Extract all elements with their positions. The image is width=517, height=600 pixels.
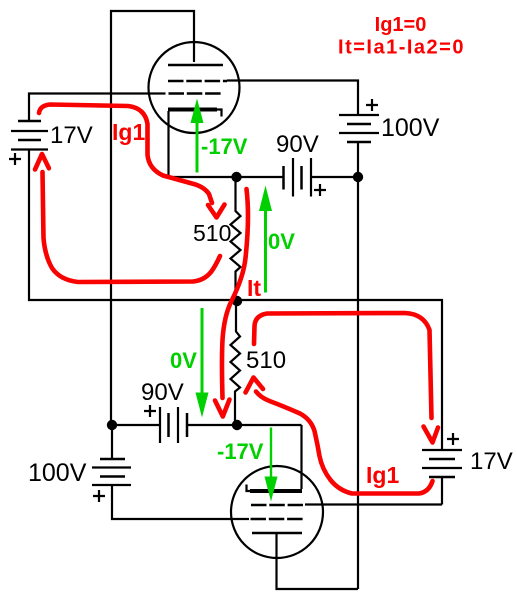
svg-text:0V: 0V: [170, 348, 197, 373]
wire top box (plate of V1 to left rail): [111, 11, 194, 425]
wire mid rail (17V left to 17V right): [29, 150, 442, 450]
wire V2 g2 to 17V right battery: [305, 477, 442, 505]
battery B6 17V right plates: [422, 450, 462, 477]
resistor R2 510: [231, 301, 241, 425]
tube V2 control grid g1: [251, 518, 304, 521]
svg-text:Ig1: Ig1: [366, 462, 399, 488]
svg-text:17V: 17V: [470, 448, 513, 475]
wire node D to V2 cathode: [237, 425, 302, 489]
svg-text:0V: 0V: [268, 229, 295, 254]
svg-text:-17V: -17V: [217, 439, 264, 464]
svg-text:510: 510: [193, 220, 231, 246]
wire B4 to node D: [187, 424, 235, 426]
svg-text:90V: 90V: [141, 379, 184, 406]
battery B4 plus: [144, 405, 156, 417]
wire right rail (node B down): [357, 177, 359, 589]
tube V1 control grid g1: [169, 92, 222, 95]
battery B3 17V left plates: [11, 121, 48, 150]
svg-text:100V: 100V: [28, 459, 87, 487]
tube V1 plate bar: [168, 64, 223, 67]
arrowhead Ig1 top at R1: [208, 205, 225, 218]
resistor R1 510: [231, 177, 241, 301]
tube V2 cathode bar: [250, 489, 302, 493]
node D: [232, 420, 242, 430]
svg-text:Ig1=0: Ig1=0: [375, 14, 427, 36]
tube V1 cathode hook: [217, 110, 222, 117]
current path Ig1 top (battery to R1): [39, 105, 212, 204]
node A: [231, 172, 241, 182]
svg-text:It=Ia1-Ia2=0: It=Ia1-Ia2=0: [338, 37, 465, 59]
tube V1 envelope: [149, 42, 240, 133]
arrowhead Ig1 bottom at R2: [246, 378, 264, 393]
battery B1 100V plates: [339, 115, 379, 142]
tube V2 screen grid g2: [251, 504, 303, 507]
voltage arrow 0V bottom: [196, 308, 209, 418]
battery B3 plus: [9, 153, 21, 165]
svg-text:17V: 17V: [50, 122, 93, 149]
wire node E to 90V battery: [111, 424, 160, 426]
current path Ig1 top return (R1 to battery): [43, 172, 221, 282]
voltage arrow 0V top: [259, 186, 272, 293]
svg-text:Ig1: Ig1: [112, 119, 145, 145]
node C: [232, 296, 242, 306]
svg-text:90V: 90V: [276, 131, 319, 158]
battery B4 90V bottom plates: [160, 407, 187, 443]
wire V2 plate to right rail: [277, 533, 359, 589]
wire node E to B5: [111, 425, 113, 459]
svg-text:-17V: -17V: [201, 134, 248, 159]
battery B1 plus: [366, 99, 378, 111]
node B: [353, 172, 363, 182]
battery B5 plus: [93, 490, 105, 502]
wire node A to 90V battery: [236, 176, 283, 178]
voltage arrow -17V bottom: [265, 428, 278, 502]
battery B6 plus: [447, 433, 459, 445]
wire V1 g2 to 100V battery: [227, 81, 358, 116]
voltage arrow -17V top: [191, 99, 204, 173]
wire B1 to node B: [357, 142, 359, 177]
arrowhead It at node D: [215, 400, 230, 417]
tube V2 envelope: [231, 466, 323, 558]
tube V1 cathode bar: [168, 108, 217, 112]
current path Ig1 bottom return (battery to R2): [256, 392, 433, 494]
wire V1 g1 to 17V battery: [29, 94, 166, 122]
svg-text:100V: 100V: [381, 114, 440, 142]
tube V1 screen grid g2: [168, 80, 227, 83]
battery B5 100V bottom plates: [92, 459, 131, 485]
tube V2 plate bar: [252, 532, 302, 535]
arrowhead Ig1 bottom at battery: [424, 427, 439, 443]
wire 90V battery to node B: [311, 176, 358, 178]
wire V1 cathode to node A: [169, 111, 238, 177]
arrowhead Ig1 top at battery: [35, 154, 49, 170]
svg-text:510: 510: [246, 347, 286, 374]
current path It (R1 to node D): [222, 189, 248, 398]
node E: [107, 420, 117, 430]
battery B2 plus: [314, 184, 326, 196]
battery B2 90V plates: [284, 158, 312, 197]
wire B5 to V2 g1: [112, 485, 249, 519]
svg-text:It: It: [247, 275, 261, 301]
tube V2 cathode hook: [247, 485, 251, 492]
current path Ig1 bottom (R2 to 17V right battery): [254, 313, 432, 418]
